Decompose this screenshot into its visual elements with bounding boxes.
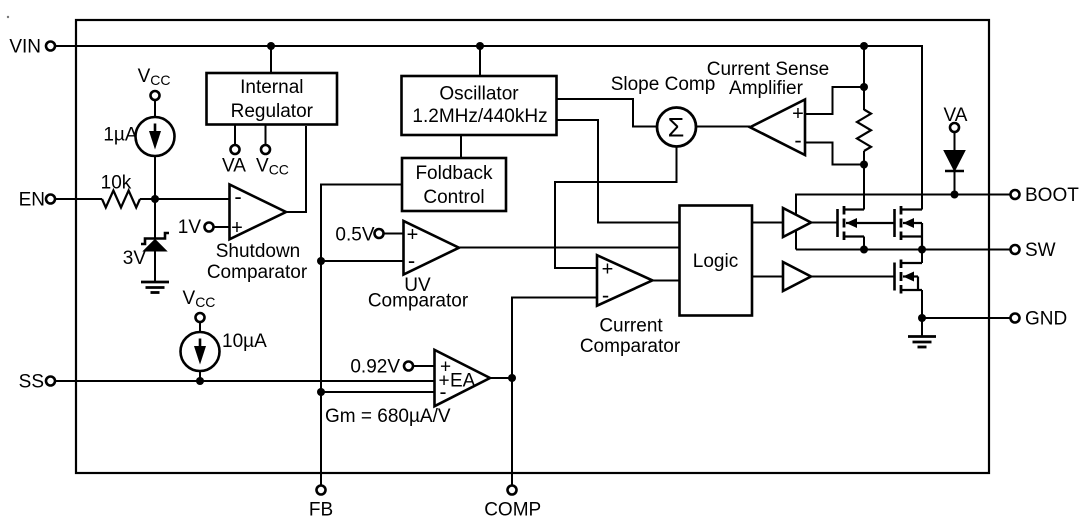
svg-text:1.2MHz/440kHz: 1.2MHz/440kHz (412, 106, 547, 127)
svg-text:1µA: 1µA (103, 125, 138, 146)
svg-text:-: - (602, 283, 609, 308)
svg-text:SS: SS (19, 372, 44, 393)
svg-text:EN: EN (19, 190, 45, 211)
svg-text:Oscillator: Oscillator (439, 84, 519, 105)
svg-text:-: - (794, 128, 801, 153)
svg-text:3V: 3V (123, 248, 147, 269)
svg-text:+: + (792, 103, 804, 125)
svg-text:Foldback: Foldback (415, 163, 493, 184)
svg-text:GND: GND (1025, 309, 1067, 330)
svg-text:VA: VA (222, 156, 246, 177)
svg-text:1V: 1V (178, 217, 202, 238)
svg-text:-: - (440, 381, 447, 404)
svg-text:0.92V: 0.92V (350, 357, 400, 378)
svg-text:+: + (602, 259, 614, 281)
svg-text:Control: Control (423, 187, 484, 208)
svg-text:Gm = 680µA/V: Gm = 680µA/V (325, 406, 451, 427)
svg-text:COMP: COMP (484, 500, 541, 521)
svg-text:Slope Comp: Slope Comp (611, 74, 716, 95)
svg-text:SW: SW (1025, 240, 1056, 261)
svg-text:Internal: Internal (240, 77, 303, 98)
svg-text:10µA: 10µA (222, 331, 267, 352)
svg-text:Σ: Σ (668, 113, 685, 143)
svg-text:Shutdown: Shutdown (216, 241, 301, 262)
svg-text:Comparator: Comparator (580, 336, 681, 357)
svg-text:10k: 10k (101, 173, 132, 194)
svg-text:Current Sense: Current Sense (707, 59, 830, 80)
svg-text:FB: FB (309, 500, 333, 521)
svg-text:Amplifier: Amplifier (729, 78, 804, 99)
svg-text:Current: Current (599, 316, 663, 337)
svg-text:Regulator: Regulator (231, 101, 314, 122)
svg-text:BOOT: BOOT (1025, 185, 1079, 206)
svg-text:+: + (407, 224, 419, 246)
svg-text:EA: EA (450, 371, 476, 392)
svg-text:+: + (231, 217, 243, 239)
svg-text:-: - (408, 248, 415, 273)
svg-text:0.5V: 0.5V (335, 225, 374, 246)
svg-text:-: - (234, 184, 241, 209)
svg-text:Comparator: Comparator (207, 262, 308, 283)
svg-text:Comparator: Comparator (368, 291, 469, 312)
svg-text:Logic: Logic (693, 251, 738, 272)
svg-text:VIN: VIN (9, 37, 41, 58)
